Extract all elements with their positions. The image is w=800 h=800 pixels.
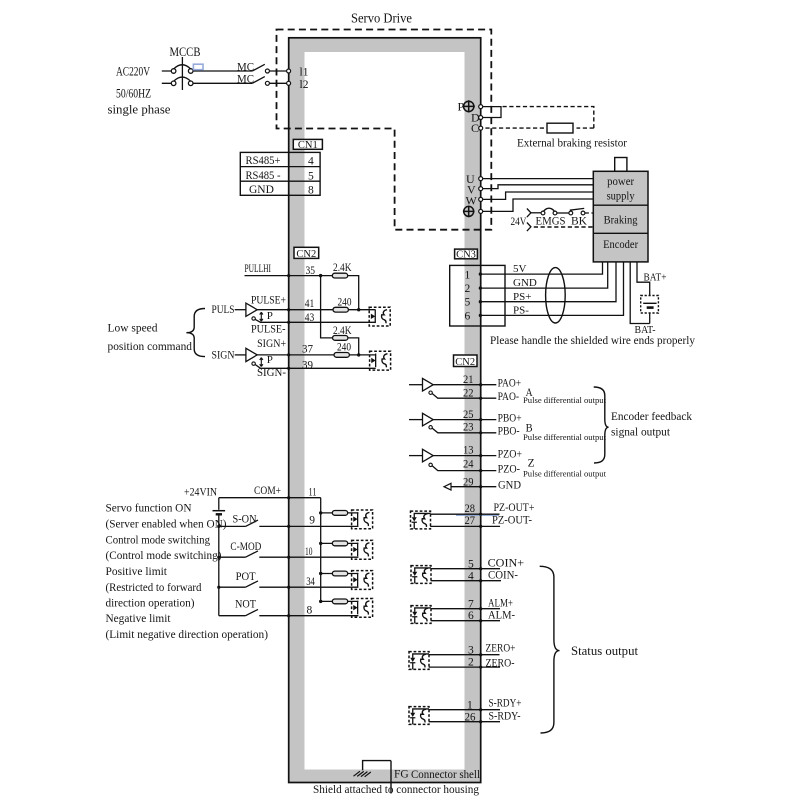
brace status output xyxy=(540,566,560,733)
CN3 pin table xyxy=(450,265,505,326)
svg-text:27: 27 xyxy=(465,515,476,527)
wire BK to braking box xyxy=(585,212,593,214)
battery 24V plates xyxy=(213,510,226,512)
wire PULSE+ pin 41 xyxy=(257,309,375,311)
svg-text:4: 4 xyxy=(308,156,314,168)
svg-text:10: 10 xyxy=(305,546,313,558)
optocoupler ZERO xyxy=(409,652,429,670)
wire P-D jumper xyxy=(483,107,501,118)
svg-text:3: 3 xyxy=(468,645,474,657)
wire L1 input xyxy=(162,70,287,72)
wire SIGN+ pin 37 xyxy=(257,354,376,356)
svg-text:SIGN-: SIGN- xyxy=(257,367,286,379)
svg-text:PAO+: PAO+ xyxy=(498,377,521,389)
svg-text:PBO-: PBO- xyxy=(498,426,520,438)
earth symbol below W xyxy=(463,206,475,218)
servo drive dashed boundary xyxy=(277,30,492,230)
svg-text:28: 28 xyxy=(465,503,476,515)
svg-text:1: 1 xyxy=(465,269,471,281)
svg-text:SIGN+: SIGN+ xyxy=(257,338,286,350)
svg-text:240: 240 xyxy=(338,296,352,308)
svg-text:35: 35 xyxy=(306,265,316,277)
svg-text:41: 41 xyxy=(305,298,315,310)
wire PAO- pin 22 xyxy=(432,393,496,398)
breaker MCCB pole contacts xyxy=(171,69,193,86)
resistor 2.4K upper xyxy=(332,273,347,278)
svg-text:Pulse differential output: Pulse differential output xyxy=(523,395,607,405)
brace encoder feedback xyxy=(594,387,609,463)
wire PS+ xyxy=(481,262,616,302)
wire PULLHI branch down to 2.4K lower xyxy=(321,276,333,338)
node 2.4K/SIGN+ junction xyxy=(357,353,360,356)
wire 2.4K lower to sign+ node xyxy=(348,338,359,355)
ground hatch xyxy=(354,771,371,777)
optocoupler S-ON xyxy=(352,510,373,529)
svg-text:26: 26 xyxy=(465,711,476,723)
svg-text:l2: l2 xyxy=(300,79,309,91)
svg-text:P: P xyxy=(267,354,273,366)
terminal L1 xyxy=(287,69,291,73)
junction dot pin37 on CN line xyxy=(287,353,290,356)
inverted output circle SIGN xyxy=(252,362,255,365)
svg-text:21: 21 xyxy=(463,374,474,386)
wire U to motor xyxy=(483,178,594,180)
svg-text:COM+: COM+ xyxy=(254,485,281,497)
svg-text:PS+: PS+ xyxy=(513,291,531,303)
driver PULS triangle xyxy=(246,303,257,316)
wire 24V rail lower xyxy=(218,515,220,616)
svg-text:MC: MC xyxy=(237,71,254,85)
wire PULLHI pin 35 xyxy=(245,275,333,277)
svg-text:CN1: CN1 xyxy=(298,140,318,151)
svg-text:PS-: PS- xyxy=(513,304,529,316)
wire 24V to EMGS xyxy=(531,212,541,214)
wire rail to resistor C-MOD xyxy=(321,542,359,544)
wire BAT+ from encoder xyxy=(637,262,650,296)
wire ALM+ pin 7 xyxy=(431,608,500,610)
svg-text:direction operation): direction operation) xyxy=(106,595,195,609)
resistor POT xyxy=(332,571,347,576)
optocoupler PZ-OUT xyxy=(411,511,431,529)
inverted output circle PULS xyxy=(252,317,255,320)
svg-text:SIGN: SIGN xyxy=(212,347,235,361)
svg-text:PZO+: PZO+ xyxy=(498,448,522,460)
svg-text:signal output: signal output xyxy=(611,424,671,438)
wire SIGN- pin 39 xyxy=(255,364,376,368)
node 2.4K/PULSE+ junction xyxy=(357,308,360,311)
svg-text:ALM-: ALM- xyxy=(488,610,515,622)
RS485 table xyxy=(240,152,320,195)
svg-text:5: 5 xyxy=(465,297,471,309)
wire 5V xyxy=(481,262,603,274)
terminal PE xyxy=(479,209,483,213)
svg-text:S-RDY+: S-RDY+ xyxy=(489,698,522,710)
junction dot pin11 on CN line xyxy=(287,496,290,499)
svg-text:PULS: PULS xyxy=(212,302,235,316)
svg-text:Please handle the shielded wir: Please handle the shielded wire ends pro… xyxy=(490,335,695,347)
wire PZ-OUT- pin 27 xyxy=(430,525,500,527)
svg-text:(Restricted to forward: (Restricted to forward xyxy=(106,580,202,594)
svg-text:Connector shell: Connector shell xyxy=(411,769,480,781)
resistor S-ON xyxy=(332,511,347,516)
servo drive case outline xyxy=(289,38,481,783)
wire ALM- pin 6 xyxy=(431,620,500,622)
wire rail to resistor NOT xyxy=(321,600,359,602)
svg-text:39: 39 xyxy=(302,359,313,371)
svg-text:COIN-: COIN- xyxy=(488,570,518,582)
resistor 240 upper xyxy=(333,307,348,312)
wire external braking resistor dashed loop xyxy=(483,107,594,129)
terminal C xyxy=(479,126,483,130)
svg-text:Negative limit: Negative limit xyxy=(106,611,172,625)
svg-text:ZERO-: ZERO- xyxy=(486,657,515,669)
wire L2 input xyxy=(162,82,287,84)
svg-text:34: 34 xyxy=(306,576,315,588)
battery dashed box xyxy=(641,296,659,314)
node opto C-MOD feed xyxy=(319,542,322,545)
connector chevron lower xyxy=(527,223,531,232)
motor box divider 2 xyxy=(593,232,648,234)
wire PZO- pin 24 xyxy=(432,466,496,471)
wire PAO+ pin 21 xyxy=(433,384,496,386)
wire S-RDY+ pin 1 xyxy=(429,709,500,711)
junction dots CN3 pins xyxy=(479,272,482,275)
svg-text:GND: GND xyxy=(513,277,537,289)
svg-text:2: 2 xyxy=(468,656,474,668)
svg-text:7: 7 xyxy=(468,598,474,610)
svg-text:PZO-: PZO- xyxy=(498,463,521,475)
switch BK xyxy=(569,211,573,215)
optocoupler S-RDY xyxy=(409,707,429,725)
wire PS- xyxy=(481,262,624,316)
resistor external braking xyxy=(547,123,573,133)
wire GND pin 29 xyxy=(451,486,496,488)
svg-text:BK: BK xyxy=(571,216,588,228)
wire 2.4K to pulse+ node xyxy=(348,276,359,310)
svg-text:Status output: Status output xyxy=(571,643,638,658)
wire battery bottom xyxy=(649,313,651,324)
svg-text:6: 6 xyxy=(468,610,474,622)
svg-text:Pulse differential output: Pulse differential output xyxy=(523,469,607,479)
breaker MCCB mechanism bar xyxy=(181,57,183,90)
svg-text:BAT+: BAT+ xyxy=(644,272,667,284)
resistor NOT xyxy=(332,599,347,604)
svg-text:Servo Drive: Servo Drive xyxy=(351,11,412,26)
svg-text:(Server enabled when ON): (Server enabled when ON) xyxy=(106,517,227,531)
svg-text:24V: 24V xyxy=(511,216,528,228)
blue artifact on pin28 wire xyxy=(456,514,499,516)
wire PULSE- pin 43 xyxy=(255,319,375,322)
svg-text:EMGS: EMGS xyxy=(536,216,566,228)
svg-text:RS485+: RS485+ xyxy=(246,155,281,167)
wire FG shield xyxy=(363,761,391,794)
wire SIGN to driver xyxy=(235,354,246,356)
svg-text:5: 5 xyxy=(308,170,314,182)
shield ellipse xyxy=(546,268,566,323)
battery plates xyxy=(643,302,656,304)
svg-text:Servo function ON: Servo function ON xyxy=(106,501,192,515)
svg-text:COIN+: COIN+ xyxy=(488,557,524,569)
driver PAO triangle xyxy=(409,384,423,386)
svg-text:GND: GND xyxy=(498,479,521,491)
optocoupler sign xyxy=(370,351,391,370)
svg-text:+24VIN: +24VIN xyxy=(184,486,218,498)
svg-text:5V: 5V xyxy=(513,263,527,275)
svg-text:43: 43 xyxy=(305,312,315,324)
optocoupler C-MOD xyxy=(352,540,373,559)
svg-text:S-RDY-: S-RDY- xyxy=(489,710,521,722)
svg-text:Braking: Braking xyxy=(604,213,638,227)
svg-text:ZERO+: ZERO+ xyxy=(486,643,516,655)
inverted circle PBO xyxy=(429,426,432,429)
terminal P xyxy=(479,105,483,109)
svg-text:PZ-OUT+: PZ-OUT+ xyxy=(494,502,535,514)
svg-text:Positive limit: Positive limit xyxy=(106,564,168,578)
junction dot pin43 on CN line xyxy=(287,321,290,324)
earth symbol at P xyxy=(463,100,475,112)
svg-text:Encoder feedback: Encoder feedback xyxy=(611,409,692,423)
wire PBO- pin 23 xyxy=(432,428,496,433)
wire COM+ rail inside xyxy=(320,498,322,602)
junction dot pin35 on CN line xyxy=(287,274,290,277)
terminal V xyxy=(479,187,483,191)
svg-text:S-ON: S-ON xyxy=(233,513,258,525)
motor box divider 1 xyxy=(593,204,648,206)
svg-text:PULSE+: PULSE+ xyxy=(251,295,286,307)
svg-text:23: 23 xyxy=(463,421,474,433)
svg-text:2: 2 xyxy=(465,283,471,295)
driver PBO triangle xyxy=(409,419,423,421)
wire GND encoder xyxy=(481,262,608,288)
node PULLHI junction xyxy=(319,274,322,277)
svg-text:50/60HZ: 50/60HZ xyxy=(116,87,151,101)
wire rail to resistor S-ON xyxy=(321,512,359,514)
connector label CN3 xyxy=(455,249,478,259)
twisted pair symbol P upper xyxy=(260,312,263,321)
svg-text:W: W xyxy=(466,194,478,208)
svg-text:240: 240 xyxy=(337,342,351,354)
terminal L2 xyxy=(287,81,291,85)
highlight artifact blue box xyxy=(193,64,203,70)
driver PZO triangle xyxy=(409,455,423,457)
wire 24V return dashed xyxy=(534,226,594,228)
wire PBO+ pin 25 xyxy=(433,419,496,421)
svg-text:(Control mode switching): (Control mode switching) xyxy=(106,548,222,562)
optocoupler POT xyxy=(352,571,373,590)
wire W to motor xyxy=(483,192,594,199)
wire PZ-OUT+ pin 28 xyxy=(430,513,499,515)
svg-text:24: 24 xyxy=(463,459,474,471)
svg-text:AC220V: AC220V xyxy=(116,65,150,79)
connector label CN2 right xyxy=(454,355,478,367)
optocoupler pulse xyxy=(369,307,390,326)
wire EMGS to BK xyxy=(557,212,569,214)
wire 24V rail upper xyxy=(218,498,220,510)
svg-text:1: 1 xyxy=(467,700,473,712)
wire COIN- pin 4 xyxy=(431,580,501,582)
optocoupler ALM xyxy=(411,606,431,624)
svg-text:POT: POT xyxy=(236,571,256,583)
svg-text:CN2: CN2 xyxy=(296,249,316,260)
svg-text:CN2: CN2 xyxy=(455,357,475,368)
inverted circle PZO xyxy=(429,463,432,466)
resistor 240 lower xyxy=(334,353,349,358)
wire PE to motor xyxy=(483,199,594,211)
optocoupler COIN xyxy=(411,566,431,584)
resistor C-MOD xyxy=(332,541,347,546)
optocoupler NOT xyxy=(352,599,373,618)
wire rail to resistor POT xyxy=(321,573,359,575)
junction dot pin41 on CN line xyxy=(287,308,290,311)
terminal W xyxy=(479,197,483,201)
inverted circle PAO xyxy=(429,391,432,394)
svg-text:power: power xyxy=(607,174,634,188)
svg-text:GND: GND xyxy=(249,184,274,196)
svg-text:supply: supply xyxy=(607,188,635,202)
wire PULS to driver xyxy=(235,309,246,311)
svg-text:RS485 -: RS485 - xyxy=(246,170,281,182)
svg-text:PAO-: PAO- xyxy=(498,391,520,403)
wire COM+ pin 11 xyxy=(219,497,321,499)
gnd arrow xyxy=(444,483,451,490)
wire COIN+ pin 5 xyxy=(431,568,500,570)
breaker MCCB pole arcs xyxy=(174,65,191,82)
switch EMGS xyxy=(541,211,545,215)
svg-text:MCCB: MCCB xyxy=(170,45,201,59)
svg-text:single phase: single phase xyxy=(108,102,171,117)
motor connector tab xyxy=(615,158,627,172)
svg-text:ALM+: ALM+ xyxy=(488,598,513,610)
svg-text:Pulse differential output: Pulse differential output xyxy=(523,432,607,442)
servo drive gray case ring xyxy=(289,38,481,783)
wire V to motor xyxy=(483,185,594,189)
connector label CN1 xyxy=(293,139,322,149)
wire BAT- from encoder xyxy=(630,262,650,324)
svg-text:9: 9 xyxy=(309,514,315,526)
svg-text:NOT: NOT xyxy=(235,598,256,610)
svg-text:position command: position command xyxy=(108,339,193,353)
brace low speed position command xyxy=(186,309,205,357)
wire PZO+ pin 13 xyxy=(433,455,496,457)
node opto POT feed xyxy=(319,572,322,575)
svg-text:6: 6 xyxy=(465,310,471,322)
svg-text:PBO+: PBO+ xyxy=(498,412,522,424)
wire ZERO+ pin 3 xyxy=(429,654,500,656)
wire S-RDY- pin 26 xyxy=(429,721,500,723)
svg-text:Encoder: Encoder xyxy=(603,237,638,251)
svg-text:P: P xyxy=(267,310,273,322)
svg-text:FG: FG xyxy=(394,768,409,780)
terminal D xyxy=(479,116,483,120)
svg-text:5: 5 xyxy=(468,558,474,570)
motor box xyxy=(593,171,648,262)
svg-text:Control mode switching: Control mode switching xyxy=(106,533,211,547)
svg-text:4: 4 xyxy=(468,571,474,583)
junction dot pin39 on CN line xyxy=(287,367,290,370)
svg-text:22: 22 xyxy=(463,387,474,399)
svg-text:8: 8 xyxy=(307,605,313,617)
svg-text:8: 8 xyxy=(308,184,314,196)
svg-text:PZ-OUT-: PZ-OUT- xyxy=(492,515,532,527)
svg-text:CN3: CN3 xyxy=(456,250,476,261)
svg-text:l1: l1 xyxy=(300,67,309,79)
connector chevron upper xyxy=(527,209,531,218)
svg-text:37: 37 xyxy=(302,343,313,355)
svg-text:13: 13 xyxy=(463,444,474,456)
svg-text:PULSE-: PULSE- xyxy=(251,323,286,335)
twisted pair symbol P lower xyxy=(260,358,263,367)
connector label CN2 left xyxy=(294,247,319,258)
svg-text:External braking resistor: External braking resistor xyxy=(517,138,627,150)
svg-text:2.4K: 2.4K xyxy=(333,262,352,274)
driver SIGN triangle xyxy=(246,348,257,361)
svg-text:11: 11 xyxy=(309,486,317,498)
wire ZERO- pin 2 xyxy=(429,666,500,668)
svg-text:Shield attached to connector h: Shield attached to connector housing xyxy=(313,782,479,796)
svg-text:C: C xyxy=(471,121,479,135)
resistor 2.4K lower xyxy=(333,336,348,341)
node opto S-ON feed xyxy=(319,511,322,514)
svg-text:Low speed: Low speed xyxy=(108,320,158,334)
terminal U xyxy=(479,177,483,181)
svg-text:PULLHI: PULLHI xyxy=(245,263,272,275)
node opto NOT feed xyxy=(319,600,322,603)
svg-text:(Limit negative direction oper: (Limit negative direction operation) xyxy=(106,627,269,641)
